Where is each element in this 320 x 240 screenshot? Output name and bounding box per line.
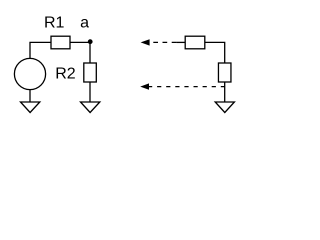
wire from source top to R1 left [30,42,51,58]
wire from R2 bottom to ground [89,82,91,102]
voltage source (circle) [14,58,45,89]
wire from vertical resistor to ground [224,82,226,102]
arrow (bottom port indicator) [140,83,149,89]
wire from source bottom to ground [29,90,31,102]
wire from R1 right to node a [70,41,90,43]
wire from top-right resistor to vertical resistor [205,42,225,63]
wire from node a down to R2 [89,42,91,63]
resistor R1 [51,36,70,49]
dashed wire (top) [153,41,176,43]
wire stub to top-right resistor [176,41,185,43]
svg-text:R2: R2 [55,65,76,82]
dashed wire (bottom) [148,86,225,88]
resistor (right vertical, unlabeled) [218,63,231,82]
ground (under R2) [81,102,100,113]
ground (bottom right) [215,102,234,113]
resistor R2 [84,63,97,82]
ground (under source) [21,102,40,113]
svg-text:R1: R1 [44,15,65,32]
arrow (top port indicator) [141,39,150,45]
node a (junction dot) [88,39,93,44]
svg-text:a: a [80,15,89,32]
resistor (top right, unlabeled) [185,36,205,49]
